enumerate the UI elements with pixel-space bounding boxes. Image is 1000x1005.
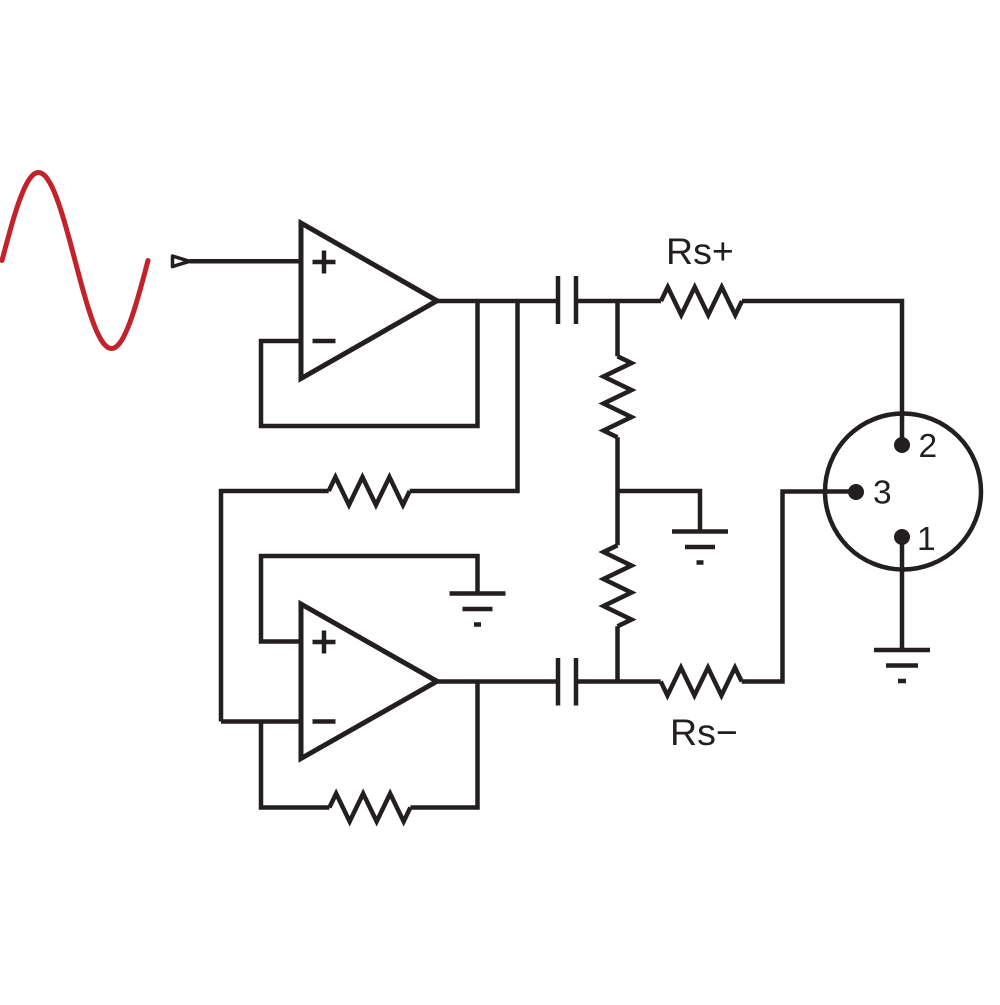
wire node B to ground branch bbox=[618, 491, 701, 531]
wire R1 to node B bbox=[615, 437, 620, 491]
resistor R3 bbox=[329, 477, 410, 505]
ground (center) bbox=[672, 532, 728, 563]
XLR pin 2 bbox=[894, 437, 910, 453]
wire middle resistor R3 left leg bbox=[221, 491, 329, 722]
svg-text:1: 1 bbox=[917, 521, 936, 558]
wire Rs+ to XLR pin 2 bbox=[742, 301, 902, 445]
XLR connector J1 body bbox=[825, 414, 981, 570]
wire U2 inverting input bbox=[221, 719, 301, 724]
wire U2 output bbox=[437, 679, 558, 684]
wire U2 non-inverting input to ground bbox=[261, 556, 478, 642]
wire R2 to node C bbox=[615, 626, 620, 681]
XLR pin 1 bbox=[894, 529, 910, 545]
wire U1 feedback to inverting input bbox=[261, 301, 478, 426]
capacitor C2 bbox=[558, 658, 576, 706]
XLR pin 3 bbox=[848, 484, 864, 500]
ground (upper, near U2) bbox=[450, 594, 506, 625]
op-amp U2 minus symbol bbox=[313, 719, 336, 724]
capacitor C1 bbox=[558, 276, 576, 324]
svg-text:Rs+: Rs+ bbox=[666, 230, 734, 272]
wire U2 feedback left leg bbox=[261, 722, 329, 808]
input arrow bbox=[173, 256, 190, 267]
svg-text:3: 3 bbox=[873, 475, 892, 512]
op-amp U1 plus symbol bbox=[313, 251, 336, 274]
svg-text:Rs−: Rs− bbox=[670, 711, 738, 753]
wire R3 to U1 output node bbox=[410, 301, 518, 491]
svg-text:2: 2 bbox=[919, 428, 938, 465]
wire C2 to node C bbox=[576, 679, 661, 684]
ground (below XLR) bbox=[874, 650, 930, 681]
op-amp U2 bbox=[301, 604, 437, 759]
wire input arrow to op-amp U1 + input bbox=[190, 259, 302, 264]
op-amp U1 minus symbol bbox=[313, 339, 336, 344]
wire R4 to U2 output bbox=[410, 682, 477, 808]
wire C1 to node A bbox=[576, 299, 661, 304]
op-amp U2 plus symbol bbox=[313, 631, 336, 654]
resistor Rs+ bbox=[661, 287, 742, 315]
wire U1 output bbox=[437, 299, 557, 304]
resistor R4 (U2 feedback) bbox=[329, 794, 410, 822]
resistor R1 bbox=[604, 356, 632, 437]
resistor Rs- bbox=[661, 668, 742, 696]
wire Rs- to XLR pin 3 bbox=[742, 492, 856, 682]
resistor R2 bbox=[604, 545, 632, 626]
wire node B down to resistor R2 bbox=[615, 491, 620, 545]
op-amp U1 bbox=[301, 223, 437, 379]
wire node A down to resistor R1 bbox=[615, 301, 620, 356]
wire XLR pin 1 to ground bbox=[900, 537, 905, 650]
sine wave input signal bbox=[2, 173, 148, 349]
